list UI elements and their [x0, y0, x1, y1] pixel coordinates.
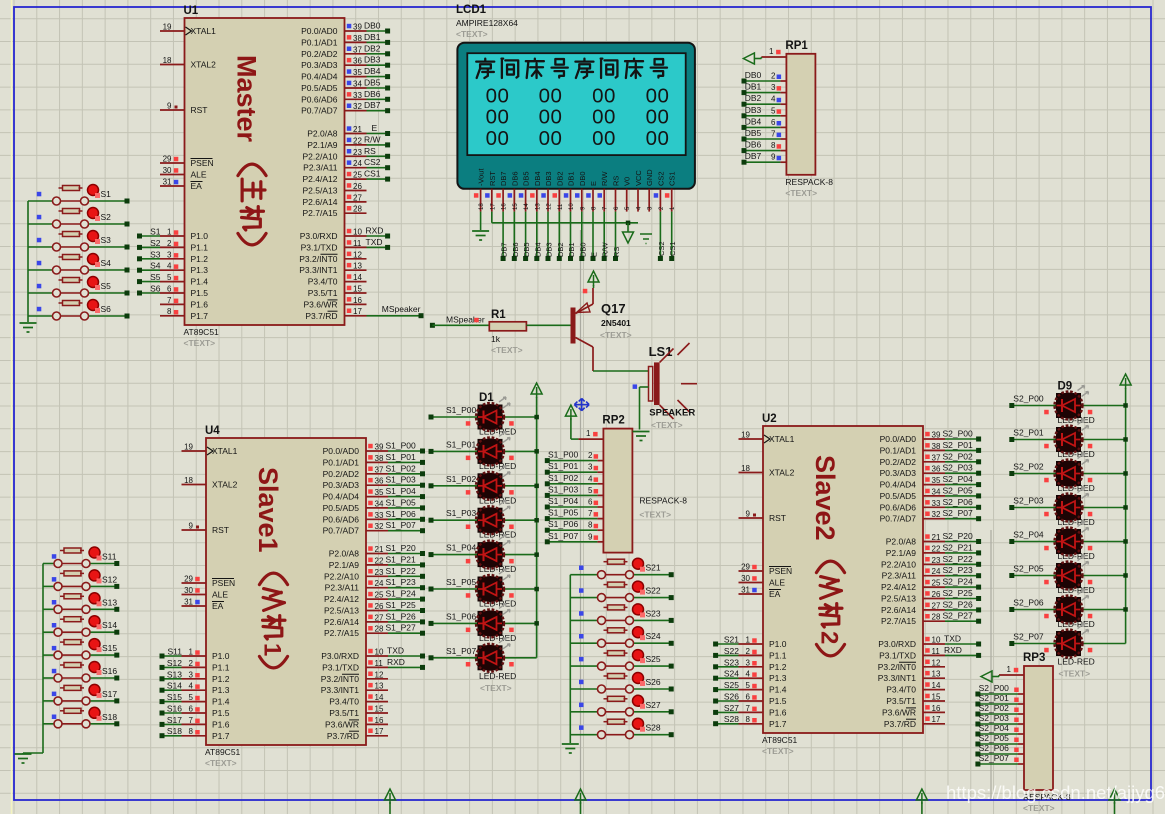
svg-text:21: 21 — [353, 125, 362, 134]
svg-text:37: 37 — [932, 453, 941, 462]
svg-text:<TEXT>: <TEXT> — [762, 746, 794, 756]
svg-text:RP3: RP3 — [1023, 652, 1045, 664]
svg-text:16: 16 — [375, 716, 384, 725]
svg-text:EA: EA — [191, 181, 203, 191]
svg-text:3: 3 — [746, 658, 751, 667]
svg-text:S1_P06: S1_P06 — [446, 611, 477, 621]
svg-text:DB6: DB6 — [745, 140, 762, 150]
svg-text:1: 1 — [586, 429, 591, 438]
svg-text:4: 4 — [771, 95, 776, 104]
svg-text:CS2: CS2 — [657, 241, 666, 256]
svg-text:DB7: DB7 — [364, 100, 381, 110]
svg-text:E: E — [372, 123, 378, 133]
svg-text:S2_P01: S2_P01 — [1013, 428, 1044, 438]
svg-text:S1: S1 — [101, 189, 112, 199]
svg-text:12: 12 — [932, 658, 941, 667]
svg-text:13: 13 — [353, 262, 362, 271]
svg-text:S2_P27: S2_P27 — [943, 611, 974, 621]
svg-text:37: 37 — [375, 465, 384, 474]
svg-text:S1_P06: S1_P06 — [386, 509, 417, 519]
svg-text:V0: V0 — [623, 177, 632, 186]
svg-text:P3.5/T1: P3.5/T1 — [329, 708, 359, 718]
svg-text:24: 24 — [375, 579, 384, 588]
svg-text:2: 2 — [189, 659, 194, 668]
svg-text:P0.5/AD5: P0.5/AD5 — [323, 503, 360, 513]
svg-text:S2_P21: S2_P21 — [943, 542, 974, 552]
svg-text:S2_P02: S2_P02 — [1013, 462, 1044, 472]
svg-text:CS1: CS1 — [668, 171, 677, 186]
svg-text:P0.2/AD2: P0.2/AD2 — [323, 469, 360, 479]
svg-text:<TEXT>: <TEXT> — [456, 29, 488, 39]
svg-text:11: 11 — [558, 203, 564, 210]
svg-text:VCC: VCC — [634, 170, 643, 186]
svg-text:13: 13 — [932, 670, 941, 679]
svg-text:16: 16 — [353, 296, 362, 305]
svg-text:P2.4/A12: P2.4/A12 — [303, 174, 338, 184]
svg-text:7: 7 — [771, 130, 776, 139]
svg-text:P0.0/AD0: P0.0/AD0 — [323, 446, 360, 456]
svg-text:00: 00 — [646, 106, 670, 129]
svg-text:16: 16 — [502, 203, 508, 210]
svg-text:2: 2 — [167, 239, 172, 248]
svg-text:CS2: CS2 — [364, 157, 381, 167]
svg-text:S2_P02: S2_P02 — [943, 451, 974, 461]
svg-text:DB3: DB3 — [545, 242, 554, 257]
svg-text:LS1: LS1 — [649, 344, 673, 359]
svg-text:S16: S16 — [102, 666, 117, 676]
svg-text:6: 6 — [746, 693, 751, 702]
svg-text:U2: U2 — [762, 413, 777, 425]
svg-text:2: 2 — [816, 631, 843, 644]
svg-text:38: 38 — [932, 442, 941, 451]
svg-text:DB7: DB7 — [745, 151, 762, 161]
svg-text:ALE: ALE — [212, 590, 228, 600]
svg-text:34: 34 — [353, 80, 362, 89]
svg-text:22: 22 — [353, 136, 362, 145]
svg-text:10: 10 — [932, 636, 941, 645]
svg-text:P1.6: P1.6 — [769, 707, 787, 717]
svg-text:36: 36 — [932, 465, 941, 474]
svg-text:DB1: DB1 — [364, 32, 381, 42]
svg-text:S2: S2 — [101, 212, 112, 222]
svg-text:P1.6: P1.6 — [212, 719, 230, 729]
svg-text:MSpeaker: MSpeaker — [446, 315, 485, 325]
svg-text:6: 6 — [588, 498, 593, 507]
svg-text:P2.2/A10: P2.2/A10 — [303, 151, 338, 161]
svg-text:E: E — [590, 252, 599, 257]
svg-text:E: E — [589, 181, 598, 186]
svg-text:28: 28 — [932, 613, 941, 622]
svg-text:23: 23 — [353, 148, 362, 157]
svg-text:S1_P26: S1_P26 — [386, 611, 417, 621]
svg-text:LCD1: LCD1 — [456, 4, 487, 16]
svg-text:S16: S16 — [167, 704, 182, 714]
svg-text:RST: RST — [769, 513, 786, 523]
svg-text:9: 9 — [588, 532, 593, 541]
svg-text:P1.3: P1.3 — [769, 673, 787, 683]
svg-text:S1_P05: S1_P05 — [446, 577, 477, 587]
svg-text:P0.4/AD4: P0.4/AD4 — [323, 492, 360, 502]
svg-text:P2.3/A11: P2.3/A11 — [303, 163, 338, 173]
svg-text:-Vout: -Vout — [477, 168, 486, 186]
svg-text:1: 1 — [167, 228, 172, 237]
svg-text:S24: S24 — [724, 669, 739, 679]
svg-text:P3.5/T1: P3.5/T1 — [308, 288, 338, 298]
svg-text:ALE: ALE — [769, 578, 785, 588]
svg-text:15: 15 — [932, 693, 941, 702]
svg-text:S2_P01: S2_P01 — [979, 693, 1010, 703]
svg-text:30: 30 — [184, 586, 193, 595]
svg-text:P0.0/AD0: P0.0/AD0 — [301, 26, 338, 36]
svg-text:S11: S11 — [102, 552, 117, 562]
svg-text:11: 11 — [375, 659, 384, 668]
svg-text:27: 27 — [353, 193, 362, 202]
svg-text:25: 25 — [375, 591, 384, 600]
svg-text:P1.2: P1.2 — [191, 254, 209, 264]
svg-text:S1_P04: S1_P04 — [446, 543, 477, 553]
svg-text:15: 15 — [375, 705, 384, 714]
svg-text:P2.2/A10: P2.2/A10 — [881, 559, 916, 569]
svg-text:S14: S14 — [102, 620, 117, 630]
svg-text:RS: RS — [612, 247, 621, 257]
svg-text:P0.3/AD3: P0.3/AD3 — [323, 480, 360, 490]
svg-text:P1.7: P1.7 — [769, 719, 787, 729]
svg-text:S2_P04: S2_P04 — [979, 723, 1010, 733]
svg-text:9: 9 — [189, 522, 194, 531]
svg-text:6: 6 — [771, 118, 776, 127]
svg-text:S2_P25: S2_P25 — [943, 588, 974, 598]
svg-text:S15: S15 — [102, 643, 117, 653]
svg-text:S2_P26: S2_P26 — [943, 599, 974, 609]
svg-text:S2_P06: S2_P06 — [979, 743, 1010, 753]
svg-text:P3.4/T0: P3.4/T0 — [329, 697, 359, 707]
svg-text:<TEXT>: <TEXT> — [480, 683, 512, 693]
svg-text:S17: S17 — [102, 689, 117, 699]
svg-text:3: 3 — [588, 463, 593, 472]
svg-text:P2.2/A10: P2.2/A10 — [324, 571, 359, 581]
svg-text:P0.5/AD5: P0.5/AD5 — [301, 83, 338, 93]
svg-text:S27: S27 — [724, 703, 739, 713]
svg-text:S27: S27 — [646, 700, 661, 710]
svg-text:P2.0/A8: P2.0/A8 — [329, 549, 360, 559]
svg-text:TXD: TXD — [366, 237, 383, 247]
svg-text:PSEN: PSEN — [212, 578, 235, 588]
svg-text:P3.7/RD: P3.7/RD — [305, 311, 337, 321]
svg-text:DB3: DB3 — [745, 105, 762, 115]
svg-text:EA: EA — [212, 601, 224, 611]
svg-text:2N5401: 2N5401 — [601, 318, 631, 328]
svg-text:DB4: DB4 — [533, 242, 542, 257]
svg-text:S2_P05: S2_P05 — [979, 733, 1010, 743]
svg-text:P2.1/A9: P2.1/A9 — [329, 560, 360, 570]
svg-text:25: 25 — [932, 579, 941, 588]
svg-text:17: 17 — [490, 203, 496, 210]
svg-text:00: 00 — [592, 85, 616, 108]
svg-text:S1_P00: S1_P00 — [446, 405, 477, 415]
svg-text:00: 00 — [539, 127, 563, 150]
svg-text:23: 23 — [375, 568, 384, 577]
svg-text:DB6: DB6 — [510, 171, 519, 186]
svg-text:34: 34 — [932, 487, 941, 496]
svg-text:S2_P05: S2_P05 — [943, 485, 974, 495]
svg-text:00: 00 — [646, 127, 670, 150]
svg-text:2: 2 — [746, 647, 751, 656]
svg-text:S1_P25: S1_P25 — [386, 600, 417, 610]
svg-text:DB1: DB1 — [745, 82, 762, 92]
svg-text:P2.0/A8: P2.0/A8 — [886, 537, 917, 547]
svg-text:S1_P22: S1_P22 — [386, 566, 417, 576]
svg-text:D9: D9 — [1058, 381, 1073, 393]
svg-text:10: 10 — [569, 203, 575, 210]
svg-text:S1_P03: S1_P03 — [548, 484, 579, 494]
svg-text:31: 31 — [163, 178, 172, 187]
svg-text:P1.0: P1.0 — [769, 639, 787, 649]
svg-text:12: 12 — [375, 670, 384, 679]
svg-text:P2.6/A14: P2.6/A14 — [324, 617, 359, 627]
svg-text:6: 6 — [189, 705, 194, 714]
svg-text:00: 00 — [592, 106, 616, 129]
svg-text:P3.1/TXD: P3.1/TXD — [322, 662, 359, 672]
svg-text:AT89C51: AT89C51 — [762, 735, 798, 745]
svg-text:S5: S5 — [101, 281, 112, 291]
svg-text:S1: S1 — [150, 227, 161, 237]
svg-text:34: 34 — [375, 499, 384, 508]
svg-text:DB5: DB5 — [522, 171, 531, 186]
svg-text:DB5: DB5 — [364, 78, 381, 88]
svg-text:S2_P23: S2_P23 — [943, 565, 974, 575]
svg-text:S22: S22 — [646, 586, 661, 596]
svg-text:RST: RST — [488, 171, 497, 186]
svg-text:DB0: DB0 — [578, 242, 587, 257]
svg-text:S22: S22 — [724, 646, 739, 656]
svg-text:P0.2/AD2: P0.2/AD2 — [301, 49, 338, 59]
svg-text:8: 8 — [167, 307, 172, 316]
svg-text:4: 4 — [588, 474, 593, 483]
svg-text:P3.6/WR: P3.6/WR — [325, 719, 359, 729]
svg-text:5: 5 — [746, 681, 751, 690]
svg-text:S1_P06: S1_P06 — [548, 519, 579, 529]
svg-text:S12: S12 — [102, 574, 117, 584]
svg-text:<TEXT>: <TEXT> — [785, 188, 817, 198]
svg-text:P3.4/T0: P3.4/T0 — [308, 277, 338, 287]
svg-text:P0.3/AD3: P0.3/AD3 — [301, 60, 338, 70]
svg-text:P3.3/INT1: P3.3/INT1 — [321, 685, 360, 695]
svg-text:S2: S2 — [150, 238, 161, 248]
svg-text:CS1: CS1 — [668, 241, 677, 256]
svg-text:10: 10 — [353, 228, 362, 237]
svg-text:P0.4/AD4: P0.4/AD4 — [880, 480, 917, 490]
svg-text:S2_P05: S2_P05 — [1013, 564, 1044, 574]
svg-text:16: 16 — [932, 704, 941, 713]
svg-text:S2_P00: S2_P00 — [943, 429, 974, 439]
svg-text:S11: S11 — [168, 647, 183, 657]
svg-text:P0.3/AD3: P0.3/AD3 — [880, 468, 917, 478]
svg-text:P0.1/AD1: P0.1/AD1 — [323, 457, 360, 467]
svg-text:P2.4/A12: P2.4/A12 — [881, 582, 916, 592]
svg-text:P0.1/AD1: P0.1/AD1 — [880, 445, 917, 455]
svg-text:15: 15 — [353, 285, 362, 294]
svg-text:DB1: DB1 — [567, 242, 576, 257]
svg-text:SPEAKER: SPEAKER — [649, 408, 695, 419]
svg-text:4: 4 — [167, 262, 172, 271]
svg-text:XTAL1: XTAL1 — [769, 434, 795, 444]
svg-text:DB4: DB4 — [364, 66, 381, 76]
svg-text:9: 9 — [167, 102, 172, 111]
svg-text:8: 8 — [746, 715, 751, 724]
svg-text:39: 39 — [375, 443, 384, 452]
svg-text:P0.4/AD4: P0.4/AD4 — [301, 72, 338, 82]
svg-text:DB0: DB0 — [745, 70, 762, 80]
svg-text:S24: S24 — [646, 631, 661, 641]
svg-text:<TEXT>: <TEXT> — [651, 420, 683, 430]
svg-text:P0.7/AD7: P0.7/AD7 — [323, 526, 360, 536]
svg-text:P3.0/RXD: P3.0/RXD — [300, 231, 338, 241]
svg-text:S14: S14 — [167, 681, 182, 691]
svg-text:S6: S6 — [101, 304, 112, 314]
svg-text:PSEN: PSEN — [769, 566, 792, 576]
svg-text:36: 36 — [375, 477, 384, 486]
svg-text:PSEN: PSEN — [191, 158, 214, 168]
svg-text:5: 5 — [588, 486, 593, 495]
svg-text:17: 17 — [353, 307, 362, 316]
svg-text:1: 1 — [769, 47, 774, 56]
svg-text:P3.3/INT1: P3.3/INT1 — [299, 265, 338, 275]
svg-text:R/W: R/W — [364, 134, 381, 144]
svg-text:P3.2/INT0: P3.2/INT0 — [321, 674, 360, 684]
svg-text:P0.6/AD6: P0.6/AD6 — [323, 514, 360, 524]
svg-text:27: 27 — [932, 601, 941, 610]
svg-text:S2_P07: S2_P07 — [1013, 632, 1044, 642]
svg-text:19: 19 — [184, 443, 193, 452]
svg-text:P3.2/INT0: P3.2/INT0 — [299, 254, 338, 264]
svg-text:3: 3 — [189, 670, 194, 679]
svg-text:P2.7/A15: P2.7/A15 — [324, 628, 359, 638]
svg-text:S2_P00: S2_P00 — [979, 683, 1010, 693]
svg-text:S4: S4 — [150, 261, 161, 271]
svg-text:P3.0/RXD: P3.0/RXD — [878, 639, 916, 649]
svg-text:26: 26 — [353, 182, 362, 191]
svg-text:RS: RS — [612, 176, 621, 186]
svg-text:1: 1 — [1007, 665, 1012, 674]
svg-text:9: 9 — [771, 153, 776, 162]
svg-text:P3.1/TXD: P3.1/TXD — [301, 242, 338, 252]
svg-text:S21: S21 — [724, 635, 739, 645]
svg-text:DB4: DB4 — [533, 171, 542, 186]
svg-text:38: 38 — [375, 454, 384, 463]
svg-text:S1_P05: S1_P05 — [386, 497, 417, 507]
svg-text:S2_P06: S2_P06 — [1013, 598, 1044, 608]
svg-text:P2.5/A13: P2.5/A13 — [881, 594, 916, 604]
svg-text:S13: S13 — [167, 669, 182, 679]
svg-text:1: 1 — [189, 648, 194, 657]
svg-text:XTAL1: XTAL1 — [191, 26, 217, 36]
svg-text:AMPIRE128X64: AMPIRE128X64 — [456, 18, 518, 28]
svg-text:00: 00 — [646, 85, 670, 108]
svg-text:S1_P24: S1_P24 — [386, 589, 417, 599]
svg-text:P0.5/AD5: P0.5/AD5 — [880, 491, 917, 501]
svg-text:18: 18 — [479, 203, 485, 210]
svg-text:00: 00 — [486, 127, 510, 150]
svg-text:5: 5 — [167, 273, 172, 282]
svg-text:DB3: DB3 — [364, 55, 381, 65]
svg-text:S2_P00: S2_P00 — [1013, 394, 1044, 404]
svg-text:P0.7/AD7: P0.7/AD7 — [880, 514, 917, 524]
svg-text:12: 12 — [547, 203, 553, 210]
svg-text:S2_P03: S2_P03 — [979, 713, 1010, 723]
svg-text:25: 25 — [353, 171, 362, 180]
svg-text:18: 18 — [163, 56, 172, 65]
svg-text:28: 28 — [353, 205, 362, 214]
svg-text:S1_P07: S1_P07 — [386, 520, 417, 530]
svg-text:RESPACK-8: RESPACK-8 — [785, 177, 833, 187]
svg-text:S2_P04: S2_P04 — [943, 474, 974, 484]
svg-text:U1: U1 — [184, 5, 199, 17]
svg-text:15: 15 — [513, 203, 519, 210]
svg-text:S25: S25 — [724, 680, 739, 690]
svg-text:GND: GND — [645, 169, 654, 186]
svg-text:S2_P06: S2_P06 — [943, 497, 974, 507]
svg-text:Slave2: Slave2 — [810, 455, 840, 541]
svg-text:13: 13 — [375, 682, 384, 691]
svg-text:Slave1: Slave1 — [253, 467, 283, 553]
svg-text:P1.7: P1.7 — [191, 311, 209, 321]
svg-text:S1_P01: S1_P01 — [446, 439, 477, 449]
svg-text:P3.7/RD: P3.7/RD — [884, 719, 916, 729]
svg-text:S1_P03: S1_P03 — [446, 508, 477, 518]
svg-text:S3: S3 — [150, 249, 161, 259]
svg-text:00: 00 — [486, 106, 510, 129]
svg-text:P2.6/A14: P2.6/A14 — [881, 605, 916, 615]
svg-text:1k: 1k — [491, 334, 501, 344]
svg-text:33: 33 — [932, 499, 941, 508]
svg-text:DB3: DB3 — [544, 171, 553, 186]
svg-text:17: 17 — [375, 727, 384, 736]
svg-text:P0.0/AD0: P0.0/AD0 — [880, 434, 917, 444]
svg-text:DB0: DB0 — [364, 21, 381, 31]
svg-text:R/W: R/W — [600, 171, 609, 187]
svg-text:31: 31 — [741, 586, 750, 595]
svg-text:DB2: DB2 — [364, 43, 381, 53]
svg-text:P0.6/AD6: P0.6/AD6 — [880, 502, 917, 512]
svg-text:00: 00 — [539, 106, 563, 129]
svg-text:8: 8 — [189, 727, 194, 736]
svg-text:S1_P00: S1_P00 — [548, 450, 579, 460]
svg-text:AT89C51: AT89C51 — [205, 747, 241, 757]
svg-text:U4: U4 — [205, 425, 220, 437]
svg-text:RXD: RXD — [366, 226, 384, 236]
svg-text:32: 32 — [375, 522, 384, 531]
svg-text:<TEXT>: <TEXT> — [1059, 669, 1091, 679]
svg-text:11: 11 — [353, 239, 362, 248]
svg-text:S17: S17 — [167, 715, 182, 725]
svg-text:P1.4: P1.4 — [212, 697, 230, 707]
svg-text:P1.3: P1.3 — [191, 265, 209, 275]
svg-text:24: 24 — [353, 159, 362, 168]
svg-text:S2_P03: S2_P03 — [1013, 496, 1044, 506]
svg-text:EA: EA — [769, 589, 781, 599]
svg-text:P1.1: P1.1 — [191, 242, 209, 252]
svg-text:DB4: DB4 — [745, 116, 762, 126]
svg-text:00: 00 — [539, 85, 563, 108]
svg-text:P3.7/RD: P3.7/RD — [327, 731, 359, 741]
svg-text:DB2: DB2 — [745, 93, 762, 103]
svg-text:D1: D1 — [479, 392, 494, 404]
svg-text:00: 00 — [486, 85, 510, 108]
svg-text:MSpeaker: MSpeaker — [382, 304, 421, 314]
svg-text:ALE: ALE — [191, 170, 207, 180]
svg-text:00: 00 — [592, 127, 616, 150]
svg-text:DB2: DB2 — [555, 171, 564, 186]
